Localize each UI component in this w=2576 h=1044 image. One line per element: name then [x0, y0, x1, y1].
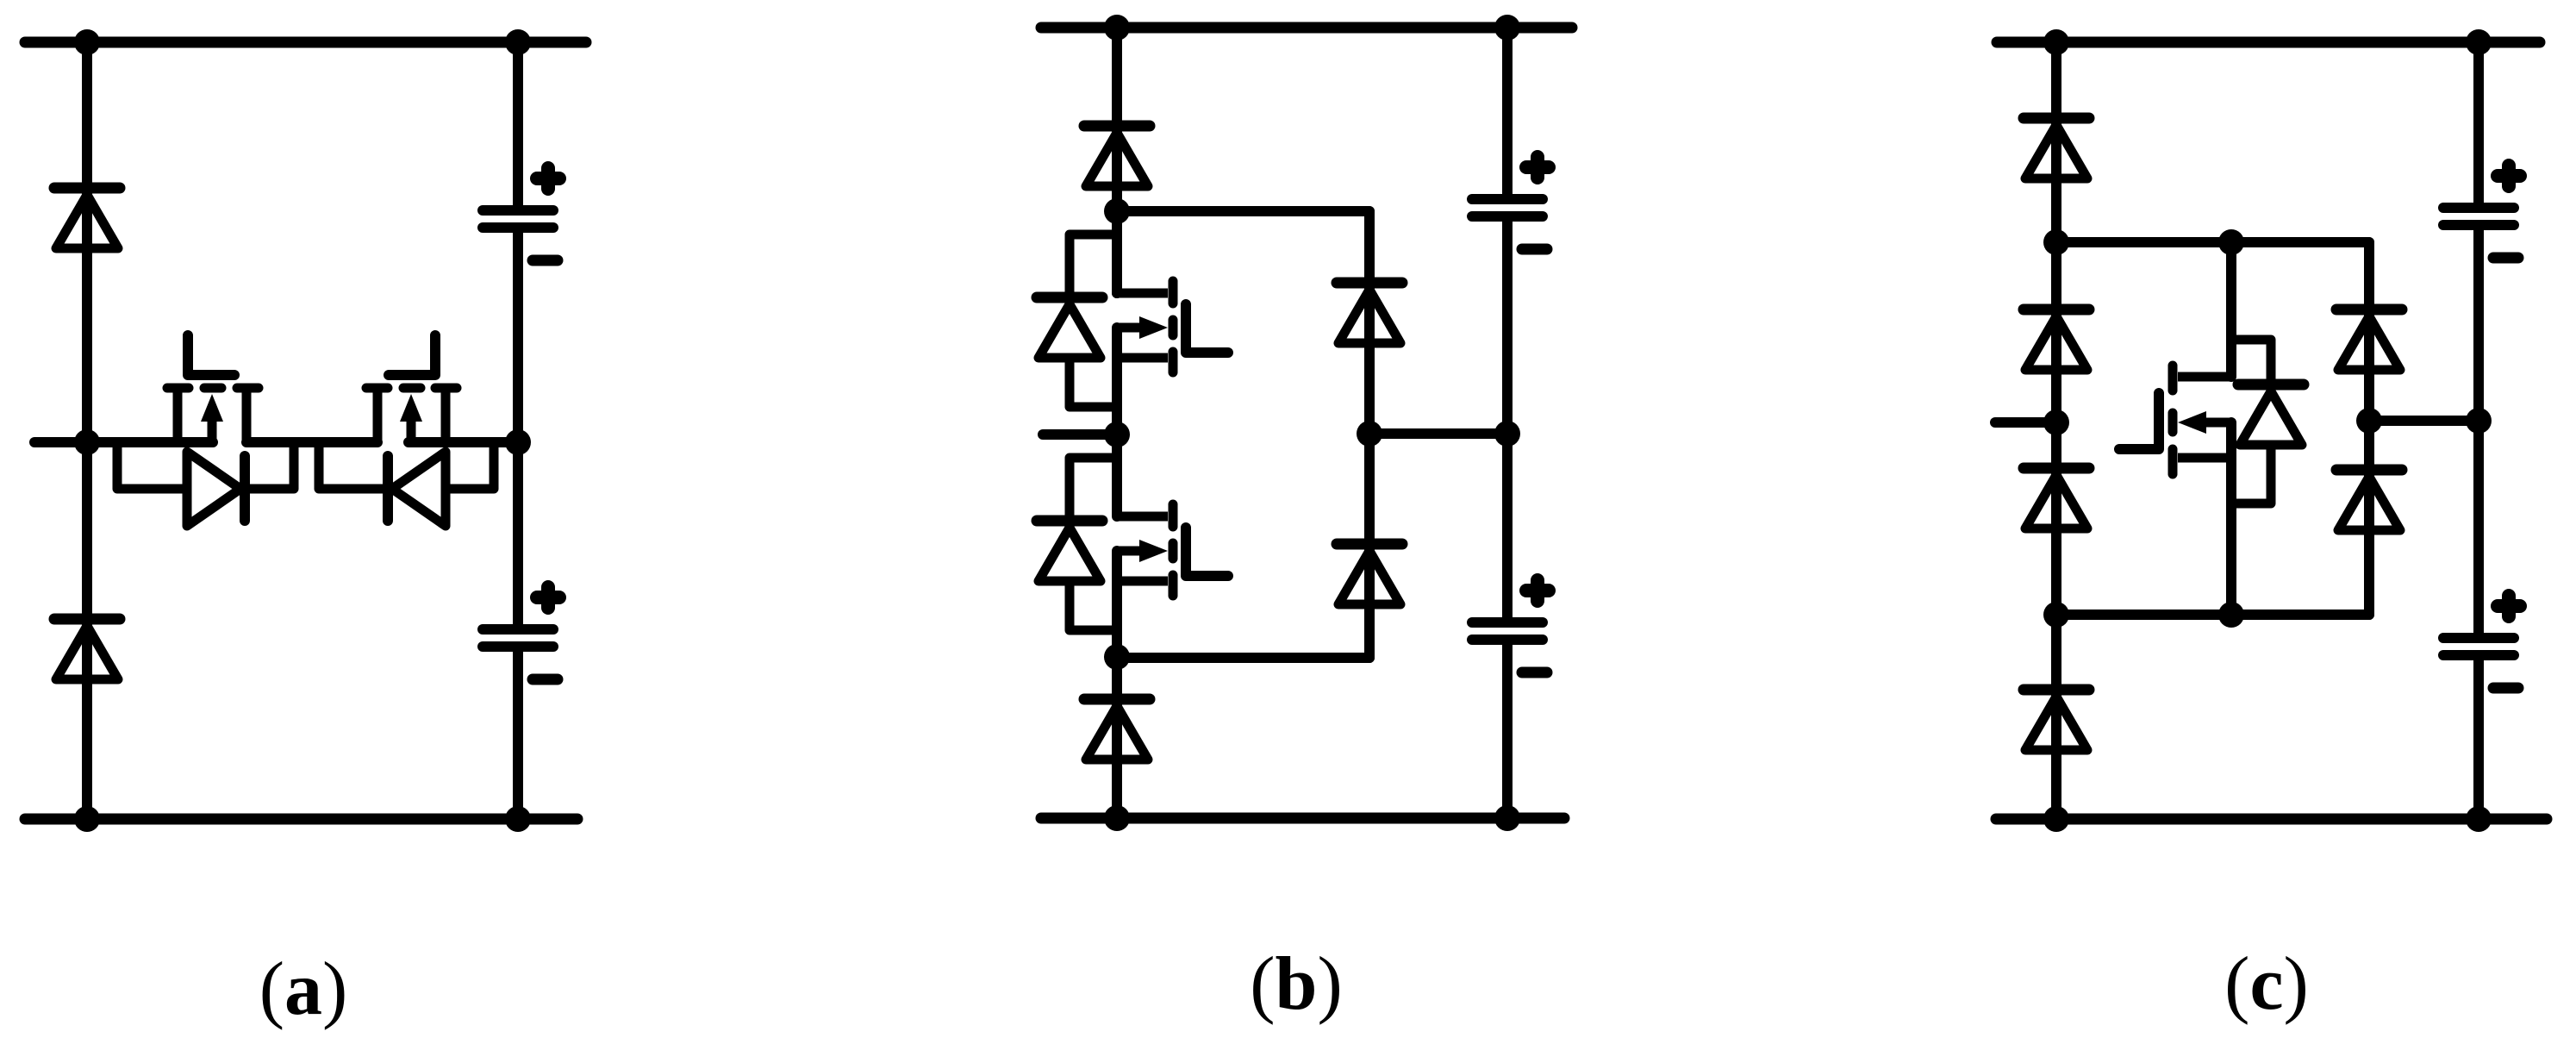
- diode D2 (a): [54, 619, 120, 679]
- channel dashes Q5: [2168, 366, 2178, 391]
- circuit (b): [1037, 15, 1572, 831]
- capacitor C1 (c): [2443, 166, 2520, 258]
- diode D3 (c): [2024, 468, 2089, 528]
- node A (c): [2043, 229, 2069, 255]
- node N3 (b): [1104, 644, 1130, 670]
- wire right branch upper (a): [513, 42, 523, 205]
- wire bottom rail (b): [1041, 813, 1564, 824]
- diode D4 (b): [1337, 544, 1402, 604]
- source vertical Q2: [1112, 551, 1122, 658]
- gate lead Q1: [1186, 304, 1228, 353]
- wire mid link (b): [1369, 428, 1507, 439]
- drain leg Q1: [1117, 289, 1168, 298]
- channel dashes Q2: [1169, 504, 1178, 527]
- wire inner bottom (c): [2056, 610, 2369, 620]
- drain leg Q2: [373, 392, 383, 442]
- wire inner loop top (b): [1117, 206, 1369, 216]
- wire bottom rail (a): [25, 814, 577, 825]
- transistor Q1 (a): [167, 335, 259, 442]
- body diode DQ5 loop (c): [2231, 340, 2304, 503]
- diode D4 (c): [2024, 690, 2089, 750]
- diode D2 (b): [1084, 699, 1150, 760]
- wire left branch upper (b): [1112, 28, 1122, 293]
- wire mid bus center segment (a): [246, 437, 377, 447]
- node right mid (c): [2466, 408, 2492, 434]
- capacitor C1 (a): [483, 168, 559, 260]
- node bottom-right (b): [1494, 805, 1520, 831]
- source vertical Q5: [2226, 422, 2236, 615]
- transistor Q5 (c): [2119, 366, 2233, 615]
- body arrow Q1: [208, 419, 217, 442]
- node inner bottom (c): [2218, 602, 2244, 628]
- drain leg Q5: [2178, 372, 2231, 382]
- circuit (a): [25, 29, 586, 832]
- body diode DQ1 loop (b): [1037, 234, 1117, 407]
- stub left at N2 (b): [1043, 429, 1117, 440]
- source vertical Q1: [1112, 328, 1122, 434]
- drain vertical Q2: [1112, 434, 1122, 516]
- diode D2 (c): [2024, 309, 2089, 370]
- wire mid bus right segment (a): [409, 437, 518, 447]
- drain leg Q1: [242, 392, 252, 442]
- wire right branch middle (a): [513, 233, 523, 624]
- node top-left (b): [1104, 15, 1130, 41]
- node top-left (a): [74, 29, 100, 55]
- body arrow Q1: [1117, 323, 1141, 333]
- drain leg Q2: [1117, 512, 1168, 522]
- node bottom-left (b): [1104, 805, 1130, 831]
- diode D5 (c): [2336, 309, 2402, 370]
- wire right branch lower (a): [513, 653, 523, 819]
- source leg Q1: [173, 392, 183, 442]
- label (b): [1250, 941, 1343, 1028]
- body arrow Q5: [2205, 418, 2233, 428]
- wire right branch upper (c): [2473, 42, 2484, 203]
- wire bottom rail (c): [1996, 814, 2547, 825]
- node right mid (b): [1494, 421, 1520, 447]
- node inner mid (b): [1357, 421, 1382, 447]
- node N1 (b): [1104, 198, 1130, 224]
- body arrow Q2: [1117, 547, 1141, 556]
- wire inner loop bottom (b): [1117, 653, 1369, 663]
- node inner mid-right (c): [2356, 408, 2382, 434]
- node B (c): [2043, 409, 2069, 435]
- node bottom-left (a): [74, 806, 100, 832]
- gate lead Q1: [188, 335, 234, 375]
- wire inner right vertical (c): [2364, 242, 2374, 615]
- wire top rail (a): [25, 37, 586, 48]
- body diode DQ1 loop (a): [117, 442, 294, 526]
- wire mid bus left segment (a): [34, 437, 213, 447]
- source leg Q5: [2178, 453, 2231, 463]
- source leg Q2: [441, 392, 451, 442]
- source leg Q1: [1117, 353, 1168, 363]
- transistor Q2 (a): [366, 335, 457, 442]
- node bottom-right (c): [2466, 806, 2492, 832]
- node bottom-right (a): [505, 806, 531, 832]
- diode D1 (a): [54, 188, 120, 248]
- channel dashes Q2: [366, 384, 388, 393]
- wire top rail (c): [1997, 37, 2540, 48]
- transistor Q2 (b): [1117, 434, 1228, 658]
- body diode DQ2 loop (b): [1037, 458, 1117, 630]
- label (c): [2224, 941, 2309, 1028]
- wire right branch lower (c): [2473, 660, 2484, 819]
- node mid-left (a): [74, 429, 100, 455]
- wire right branch middle (b): [1502, 222, 1513, 617]
- node top-right (c): [2466, 29, 2492, 55]
- gate lead Q2: [389, 335, 435, 375]
- capacitor C2 (a): [483, 587, 559, 679]
- stub left at node B (c): [1995, 417, 2056, 428]
- node inner top (c): [2218, 229, 2244, 255]
- wire right branch upper (b): [1502, 28, 1513, 194]
- circuit (c): [1995, 29, 2547, 832]
- wire left branch (c): [2051, 42, 2061, 819]
- wire left branch lower (b): [1112, 657, 1122, 818]
- wire left branch (a): [82, 42, 92, 819]
- wire inner top (c): [2056, 237, 2369, 247]
- wire drain vertical (c): [2226, 242, 2236, 377]
- label (a): [259, 946, 348, 1033]
- drain vertical Q1: [1112, 211, 1122, 293]
- gate lead Q5: [2119, 393, 2159, 449]
- gate lead Q2: [1186, 528, 1228, 576]
- node top-right (a): [505, 29, 531, 55]
- source leg Q2: [1117, 577, 1168, 586]
- channel dashes Q1: [167, 384, 189, 393]
- diode D6 (c): [2336, 470, 2402, 530]
- wire right branch lower (b): [1502, 645, 1513, 818]
- node C (c): [2043, 602, 2069, 628]
- wire top rail (b): [1041, 22, 1572, 34]
- diode D3 (b): [1337, 283, 1402, 343]
- node mid-right (a): [505, 429, 531, 455]
- wire right branch middle (c): [2473, 230, 2484, 633]
- node N2 (b): [1104, 422, 1130, 447]
- node bottom-left (c): [2043, 806, 2069, 832]
- body arrow Q2: [407, 419, 416, 442]
- transistor Q1 (b): [1117, 211, 1228, 434]
- node top-left (c): [2043, 29, 2069, 55]
- diode D1 (b): [1084, 126, 1150, 186]
- capacitor C1 (b): [1472, 157, 1549, 249]
- wire mid link (c): [2369, 416, 2479, 426]
- node top-right (b): [1494, 15, 1520, 41]
- channel dashes Q1: [1169, 281, 1178, 303]
- body diode DQ2 loop (a): [319, 442, 494, 526]
- capacitor C2 (c): [2443, 596, 2520, 688]
- diode D1 (c): [2024, 118, 2089, 178]
- capacitor C2 (b): [1472, 580, 1549, 672]
- wire inner loop vertical (b): [1364, 211, 1375, 658]
